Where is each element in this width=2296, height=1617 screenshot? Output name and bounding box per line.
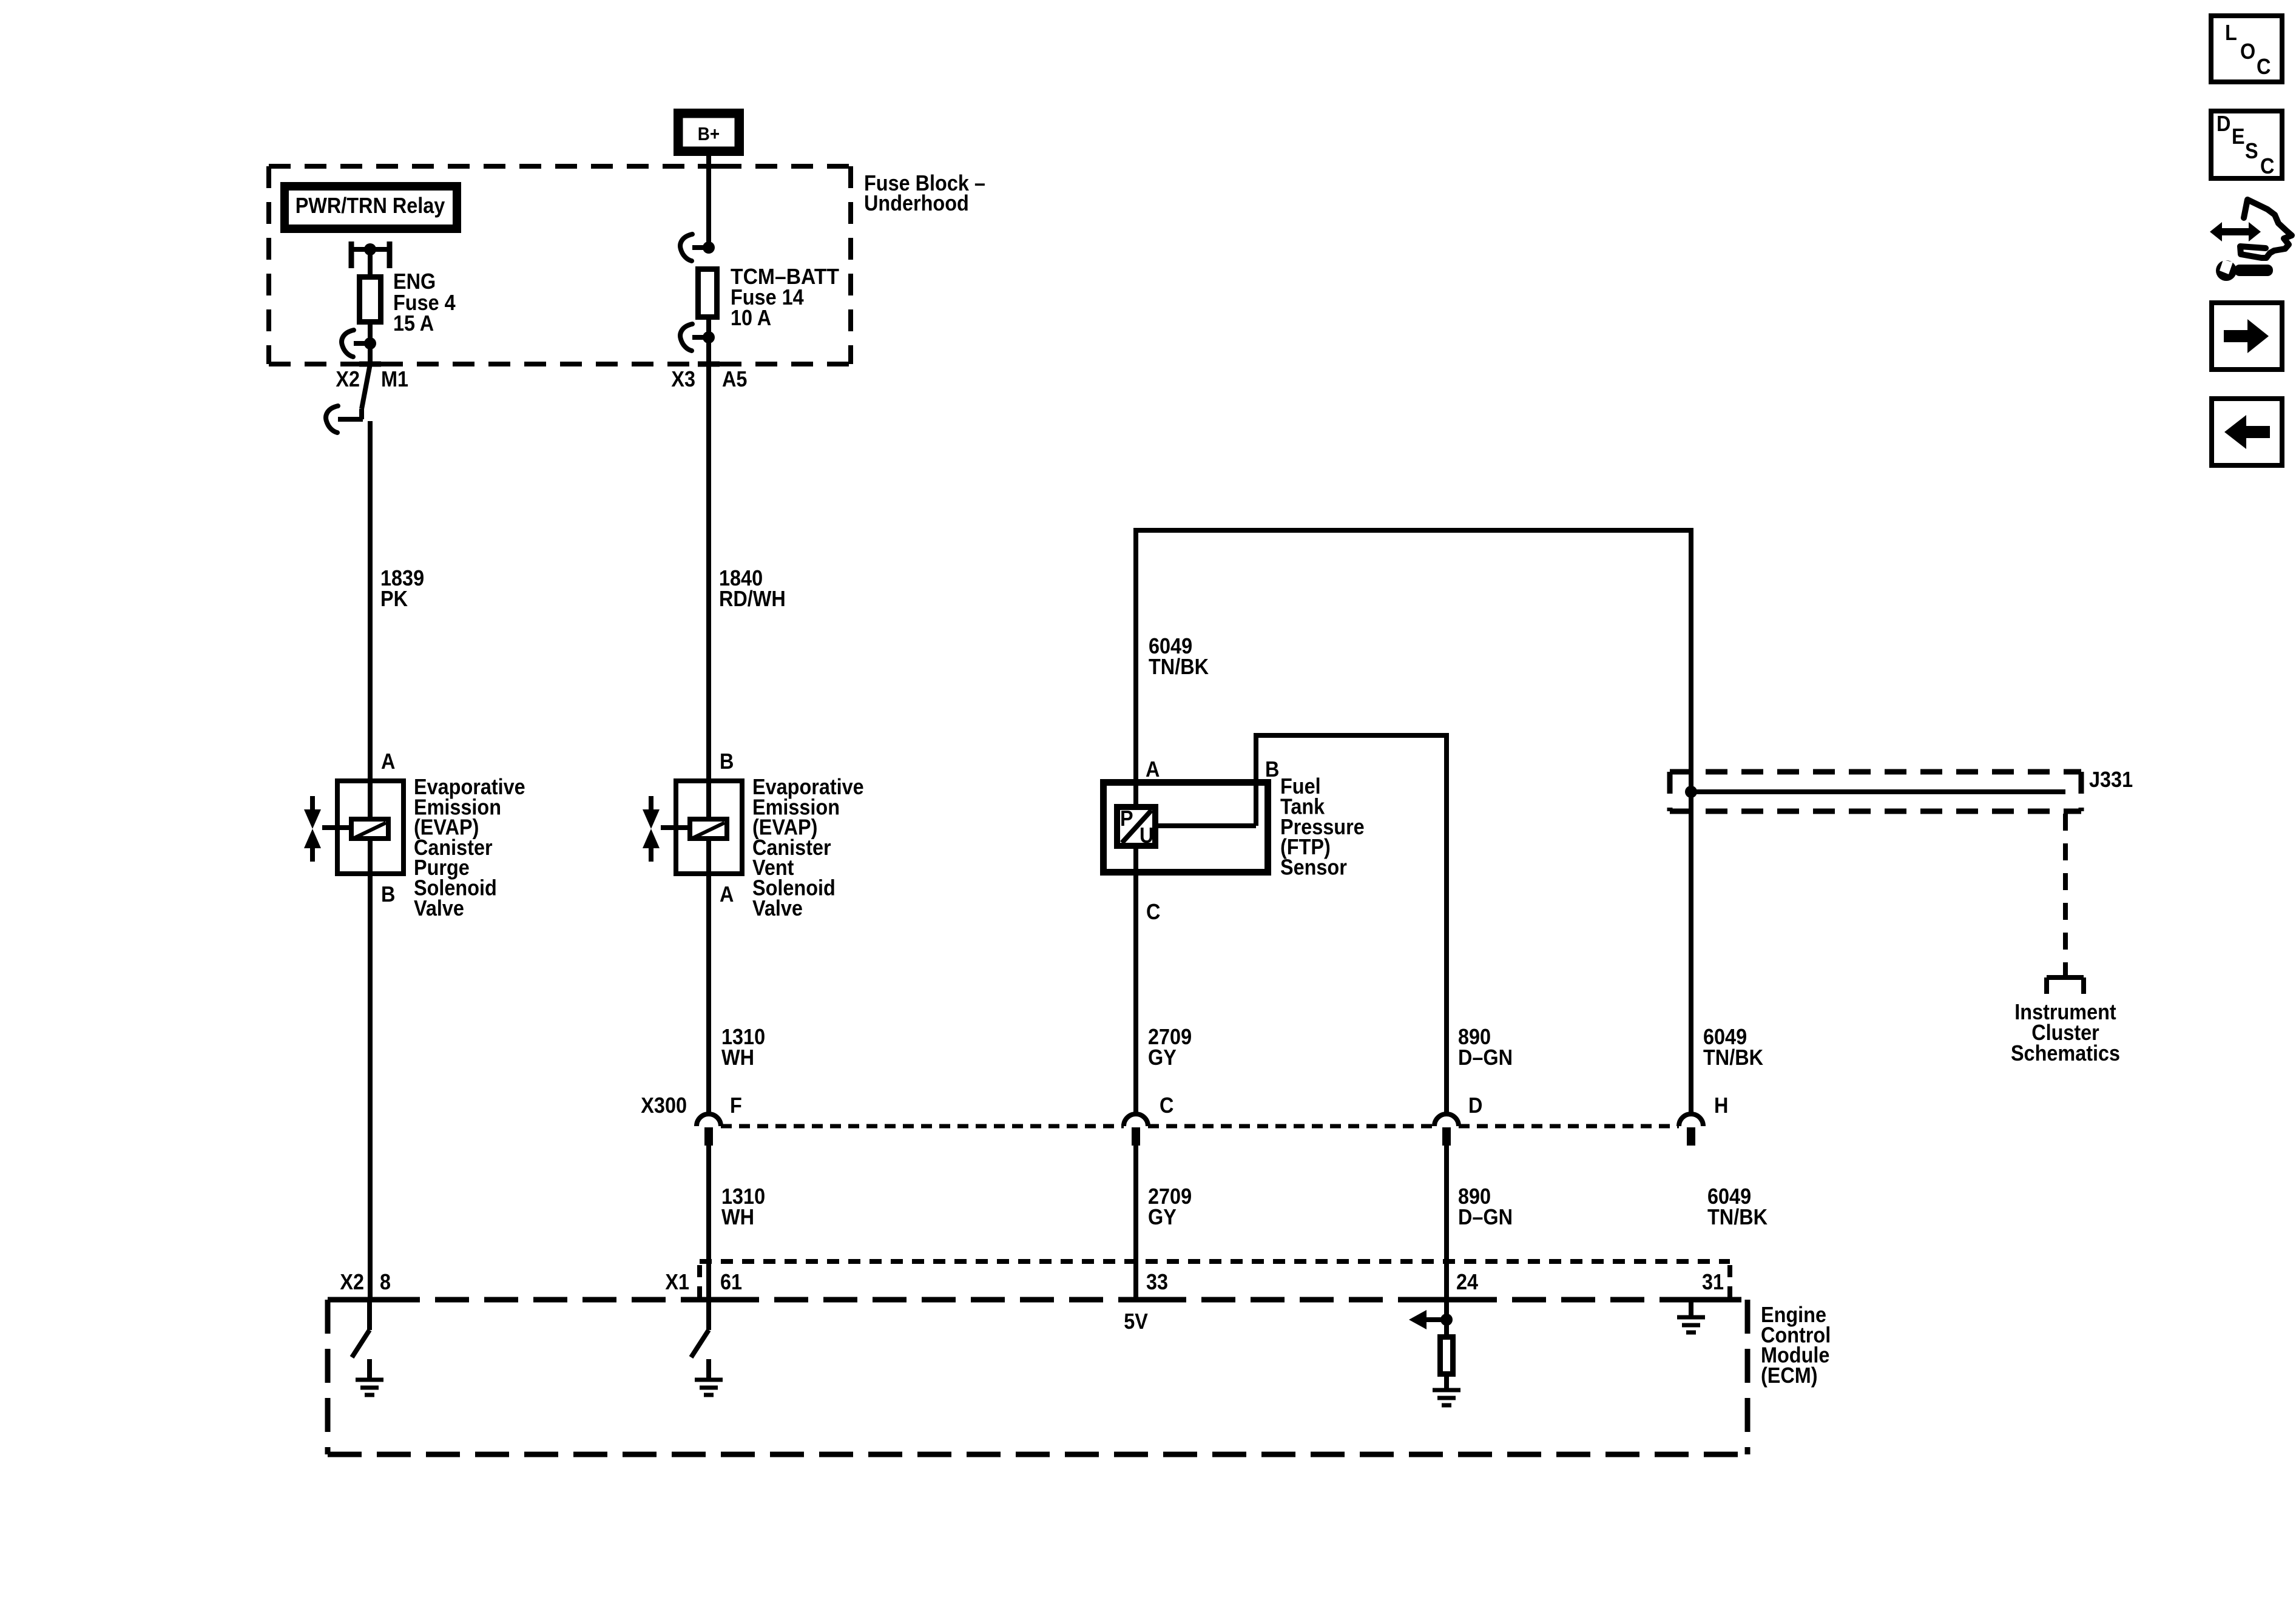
svg-text:E: E xyxy=(2232,124,2245,149)
svg-text:M1: M1 xyxy=(381,366,408,391)
svg-text:TN/BK: TN/BK xyxy=(1707,1204,1768,1229)
svg-text:X3: X3 xyxy=(671,366,695,391)
svg-text:61: 61 xyxy=(720,1269,742,1294)
svg-text:F: F xyxy=(730,1093,742,1118)
svg-text:TN/BK: TN/BK xyxy=(1149,654,1209,679)
svg-text:U: U xyxy=(1140,823,1153,848)
svg-text:C: C xyxy=(1146,899,1160,924)
svg-text:GY: GY xyxy=(1148,1045,1177,1070)
svg-text:D: D xyxy=(2217,111,2230,136)
svg-text:15 A: 15 A xyxy=(393,311,434,336)
svg-text:P: P xyxy=(1120,806,1133,831)
svg-text:A5: A5 xyxy=(722,366,747,391)
svg-text:B+: B+ xyxy=(698,123,720,144)
svg-text:Sensor: Sensor xyxy=(1280,855,1347,880)
svg-text:X300: X300 xyxy=(641,1093,687,1118)
svg-text:A: A xyxy=(381,749,395,774)
svg-text:B: B xyxy=(1265,757,1279,781)
svg-text:5V: 5V xyxy=(1124,1309,1148,1334)
svg-text:B: B xyxy=(381,882,395,906)
svg-text:L: L xyxy=(2225,20,2237,45)
svg-text:Valve: Valve xyxy=(414,896,464,920)
svg-text:8: 8 xyxy=(380,1269,391,1294)
svg-text:X2: X2 xyxy=(340,1269,364,1294)
svg-text:C: C xyxy=(1160,1093,1173,1118)
svg-text:A: A xyxy=(720,882,734,906)
svg-text:RD/WH: RD/WH xyxy=(719,586,786,611)
svg-text:C: C xyxy=(2257,54,2271,79)
svg-text:J331: J331 xyxy=(2089,767,2133,792)
svg-text:WH: WH xyxy=(721,1204,754,1229)
svg-text:Valve: Valve xyxy=(752,896,803,920)
svg-text:GY: GY xyxy=(1148,1204,1177,1229)
svg-text:PK: PK xyxy=(380,586,408,611)
svg-text:S: S xyxy=(2245,138,2258,163)
svg-text:X2: X2 xyxy=(336,366,360,391)
svg-text:Underhood: Underhood xyxy=(864,191,969,215)
svg-text:31: 31 xyxy=(1702,1269,1724,1294)
svg-text:10 A: 10 A xyxy=(731,305,771,330)
svg-text:24: 24 xyxy=(1456,1269,1478,1294)
svg-text:D–GN: D–GN xyxy=(1458,1045,1513,1070)
svg-text:TN/BK: TN/BK xyxy=(1703,1045,1763,1070)
svg-text:D–GN: D–GN xyxy=(1458,1204,1513,1229)
svg-text:C: C xyxy=(2260,154,2274,178)
svg-text:H: H xyxy=(1714,1093,1728,1118)
svg-text:D: D xyxy=(1468,1093,1482,1118)
svg-text:Schematics: Schematics xyxy=(2011,1041,2120,1065)
svg-text:B: B xyxy=(720,749,734,774)
svg-text:PWR/TRN Relay: PWR/TRN Relay xyxy=(295,193,445,218)
svg-text:(ECM): (ECM) xyxy=(1761,1363,1818,1388)
svg-text:O: O xyxy=(2240,39,2255,64)
svg-text:A: A xyxy=(1146,757,1160,781)
svg-text:33: 33 xyxy=(1146,1269,1168,1294)
svg-text:WH: WH xyxy=(721,1045,754,1070)
svg-text:X1: X1 xyxy=(665,1269,689,1294)
